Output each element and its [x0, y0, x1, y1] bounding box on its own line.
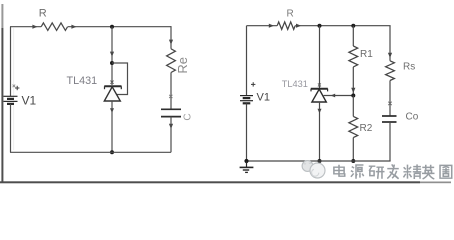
plus mark (left battery) [15, 86, 19, 90]
node dot (TL431 anode at bottom) [318, 159, 322, 163]
svg-text:V1: V1 [22, 94, 37, 108]
发 [387, 164, 398, 168]
node dot (R1 branch top) [351, 24, 355, 28]
wire: C2 top horizontal [247, 25, 391, 27]
node dot A (top of TL431 branch) [110, 25, 114, 29]
wire: Rs to Co [389, 81, 391, 117]
watermark logo [302, 161, 325, 178]
node dot B (feedback tap) [110, 61, 114, 65]
resistor Re [167, 49, 176, 73]
arrow down on anode wire (right) [318, 109, 322, 114]
wire: C1 left vertical upper [10, 27, 12, 96]
resistor R (right) [277, 22, 295, 30]
x pin mark above Co [388, 102, 391, 105]
arrow down above mid node [351, 88, 355, 93]
wire: C1 left vertical lower [10, 104, 12, 152]
battery V1 (right) [240, 96, 253, 104]
svg-text:Co: Co [406, 112, 419, 123]
wire: TL431 anode down [111, 101, 113, 152]
精 [403, 165, 411, 179]
wire: C to bottom [170, 117, 172, 153]
wire: C1 bottom horizontal [10, 151, 171, 153]
wire: down to TL431 (right) [319, 26, 321, 89]
arrow down on anode wire [110, 108, 114, 113]
node dot on bottom wire [110, 150, 114, 154]
svg-text:R1: R1 [360, 49, 373, 60]
svg-text:R2: R2 [360, 123, 373, 134]
TL431 U2 triangle [312, 89, 326, 102]
wire: TL431 anode down [319, 102, 321, 161]
capacitor Co plates [382, 115, 397, 117]
svg-text:TL431: TL431 [282, 79, 308, 89]
电 [339, 165, 345, 176]
wire: C2 left vertical upper [246, 26, 248, 96]
capacitor C plates [161, 108, 181, 110]
arrow down into Re [169, 40, 173, 45]
current arrow into R (right) [269, 24, 274, 28]
node dot (divider mid) [351, 94, 355, 98]
arrow left on reference wire [331, 94, 336, 98]
TL431 U2 cathode bar [311, 88, 328, 90]
resistor R (left) [41, 23, 67, 31]
svg-text:R: R [39, 8, 47, 20]
wire: node A down to TL431 cathode [111, 27, 113, 85]
battery V1 (left) [4, 96, 18, 104]
node dot (ground node) [244, 159, 248, 163]
current arrow into R [32, 25, 37, 29]
源 [351, 167, 354, 177]
svg-text:Re: Re [175, 57, 190, 74]
wire: C2 left vertical lower [246, 103, 248, 161]
wire: R1 branch top lead [352, 26, 354, 46]
wire: Co to bottom corner [389, 122, 391, 161]
wire: R1 to mid node [352, 67, 354, 96]
ground symbol [240, 161, 254, 172]
resistor Rs [386, 61, 395, 81]
node dot (R2 bottom) [351, 159, 355, 163]
圈 [440, 165, 452, 178]
svg-text:TL431: TL431 [67, 75, 98, 87]
wire: Rs branch top lead [389, 26, 391, 61]
current arrow after R [71, 25, 76, 29]
wire: mid node to R2 [352, 96, 354, 117]
svg-text:C: C [182, 113, 193, 120]
node dot (TL431 branch top) [318, 24, 322, 28]
arrow down below C [169, 124, 173, 129]
x pin mark (cathode) [110, 81, 113, 84]
TL431 U1 (left) triangle [104, 87, 120, 101]
arrow down into Rs [388, 53, 392, 58]
current arrow after R (right) [296, 24, 301, 28]
wire: C1 top horizontal [10, 26, 171, 28]
reference wire to divider [324, 95, 354, 97]
svg-text:V1: V1 [257, 92, 270, 104]
wire: Re to capacitor C [170, 73, 172, 110]
svg-text:R: R [287, 9, 294, 20]
plus mark (right battery) [251, 82, 255, 86]
wire: C1 right branch top [170, 26, 172, 49]
feedback wire loop [112, 63, 128, 95]
英 [422, 165, 434, 170]
resistor R1 [349, 46, 358, 67]
bottom rule (decorative) [0, 181, 420, 183]
arrow down on cathode wire [110, 52, 114, 57]
wire: R2 to bottom [352, 138, 354, 161]
resistor R2 [349, 116, 358, 137]
研 [369, 166, 376, 175]
left border bar (decorative) [1, 4, 3, 28]
x pin mark above C [169, 95, 172, 98]
TL431 U1 (left) cathode bar [104, 85, 121, 87]
x pin mark (left battery) [13, 85, 16, 88]
wire: C2 bottom horizontal [247, 160, 391, 162]
svg-text:Rs: Rs [403, 62, 415, 73]
x pin mark (cathode right) [318, 83, 321, 86]
watermark text 电源研发精英圈 (drawn strokes) [334, 164, 452, 179]
